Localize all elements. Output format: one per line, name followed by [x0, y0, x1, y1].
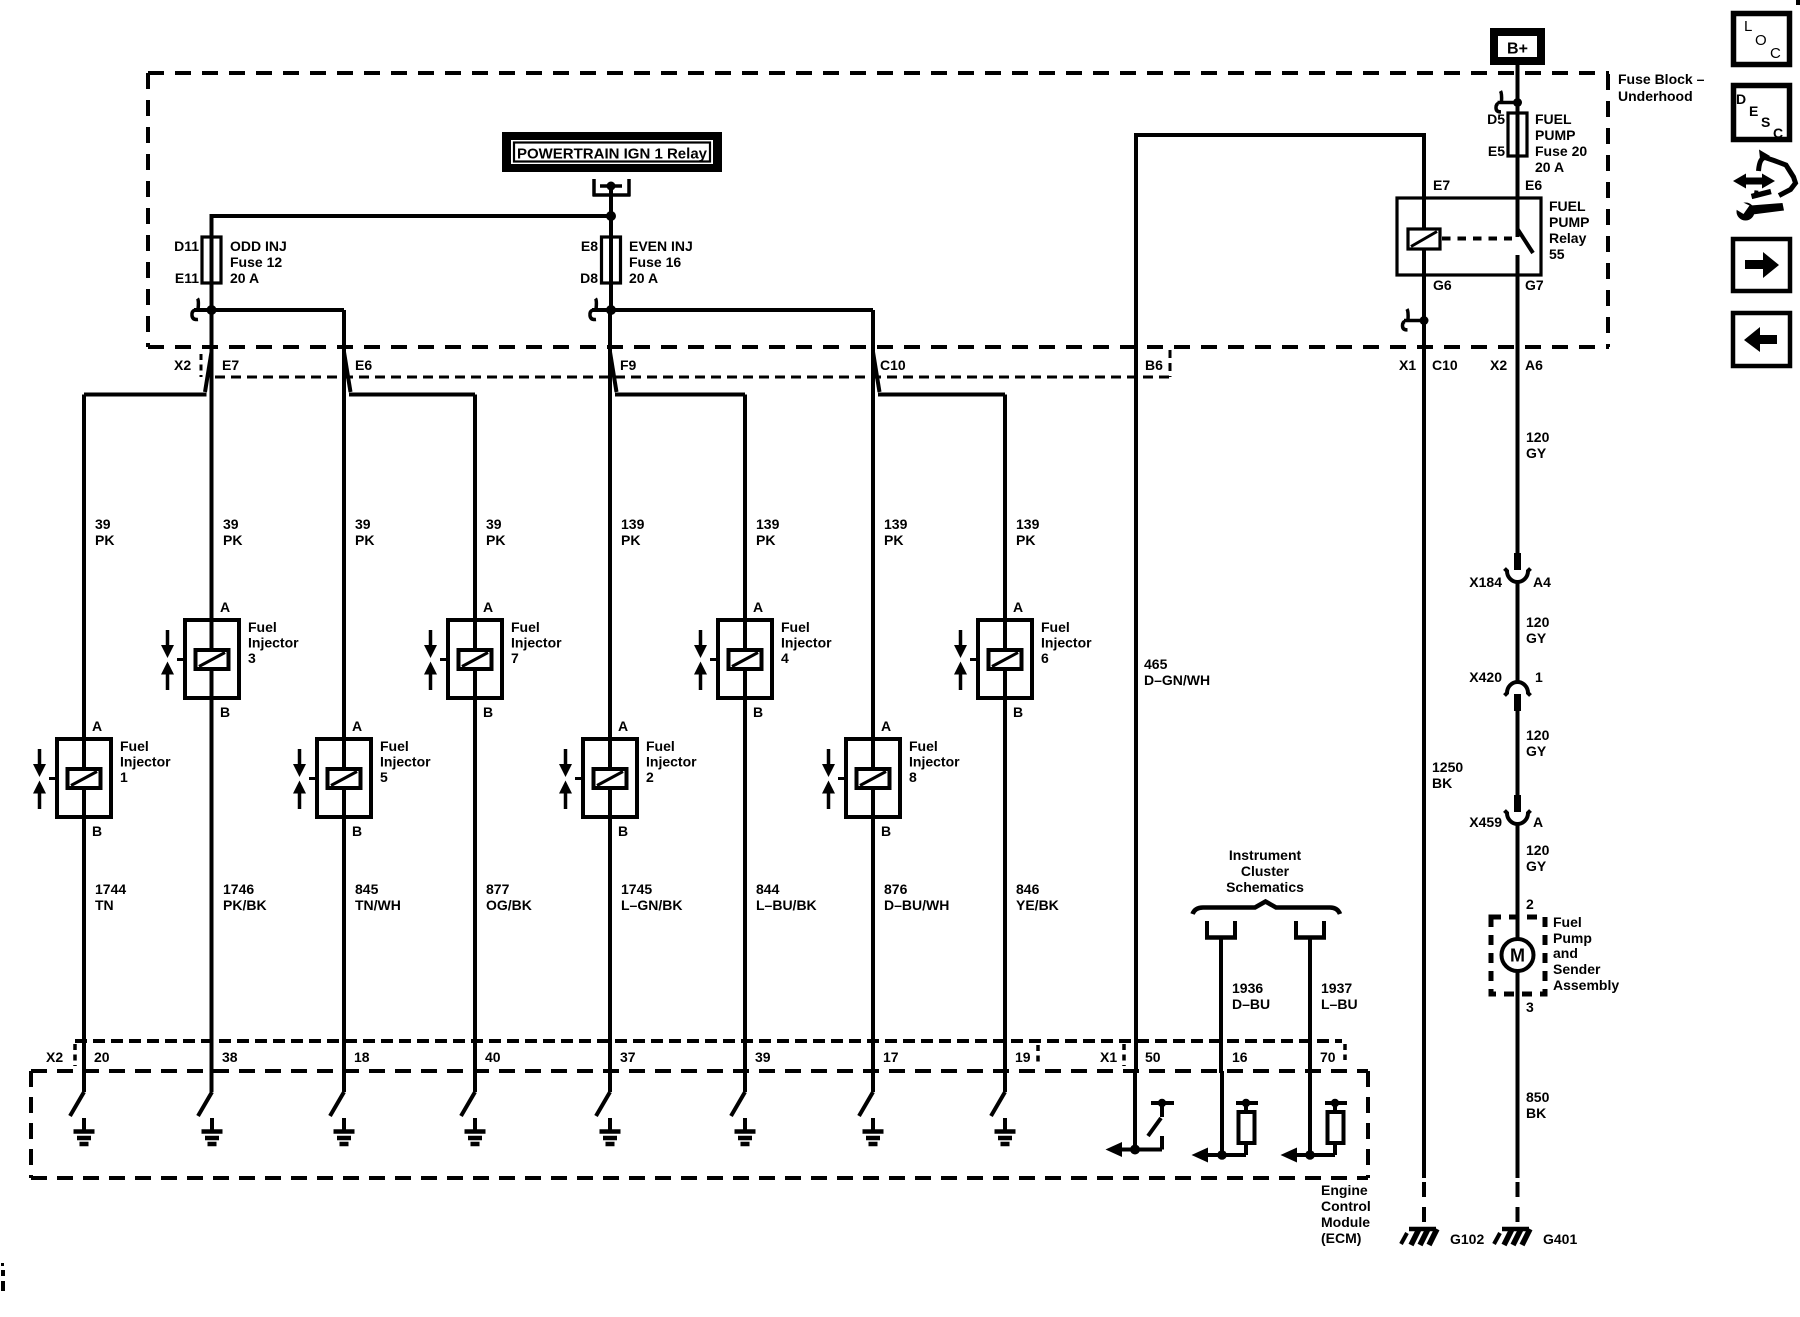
svg-text:and: and [1553, 945, 1578, 961]
svg-text:EVEN INJ: EVEN INJ [629, 238, 693, 254]
svg-text:G7: G7 [1525, 277, 1544, 293]
svg-text:38: 38 [222, 1049, 238, 1065]
connector row X2 (fuse block) [215, 376, 1170, 379]
svg-text:O: O [1755, 32, 1767, 49]
svg-text:Fuel: Fuel [120, 738, 149, 754]
fuse bus wire [210, 214, 612, 218]
wire pin bend [198, 1092, 212, 1116]
svg-text:40: 40 [485, 1049, 501, 1065]
wire pin bend [70, 1092, 84, 1116]
splice wire EVEN fuse to pin C10 [592, 308, 873, 312]
svg-text:139: 139 [884, 516, 908, 532]
svg-text:GY: GY [1526, 743, 1547, 759]
battery feed B+ [1490, 28, 1545, 65]
wire pin crossing at x=873 [871, 310, 875, 1092]
svg-text:POWERTRAIN IGN 1 Relay: POWERTRAIN IGN 1 Relay [517, 146, 708, 163]
svg-text:Sender: Sender [1553, 961, 1601, 977]
wire 850 BK [1516, 971, 1520, 1178]
fuel injector 4 [718, 620, 772, 698]
svg-text:Underhood: Underhood [1618, 88, 1693, 104]
svg-text:876: 876 [884, 881, 908, 897]
svg-text:C: C [1770, 45, 1781, 62]
svg-text:A6: A6 [1525, 357, 1543, 373]
wire [1404, 319, 1424, 323]
svg-text:E8: E8 [581, 238, 598, 254]
svg-text:PK: PK [621, 532, 640, 548]
svg-text:TN: TN [95, 897, 114, 913]
svg-text:39: 39 [223, 516, 239, 532]
svg-text:E7: E7 [1433, 177, 1450, 193]
wire B+ to fuse [1516, 65, 1520, 237]
svg-text:18: 18 [354, 1049, 370, 1065]
svg-text:37: 37 [620, 1049, 636, 1065]
svg-text:Fuel: Fuel [646, 738, 675, 754]
svg-text:1: 1 [1535, 669, 1543, 685]
wire pin crossing at x=211.5 [210, 310, 214, 1092]
svg-text:39: 39 [355, 516, 371, 532]
ECM driver switch (pin 50) [1133, 1071, 1137, 1150]
svg-text:C10: C10 [880, 357, 906, 373]
svg-text:2: 2 [646, 769, 654, 785]
svg-text:39: 39 [95, 516, 111, 532]
svg-text:Injector: Injector [380, 754, 431, 770]
cluster connector cavity [1205, 921, 1209, 938]
svg-text:Assembly: Assembly [1553, 977, 1619, 993]
wire branch at x=475 [473, 395, 477, 1093]
svg-text:465: 465 [1144, 656, 1168, 672]
svg-text:120: 120 [1526, 842, 1550, 858]
fuel injector 3 [185, 620, 239, 698]
svg-text:A: A [483, 599, 493, 615]
svg-text:17: 17 [883, 1049, 899, 1065]
fuel injector 5 [317, 739, 371, 817]
svg-text:GY: GY [1526, 445, 1547, 461]
wire pin bend [991, 1092, 1005, 1116]
svg-text:877: 877 [486, 881, 510, 897]
wire 1250 BK [1422, 322, 1426, 1178]
svg-text:X1: X1 [1399, 357, 1416, 373]
motor M [1502, 939, 1534, 971]
svg-text:1936: 1936 [1232, 980, 1263, 996]
svg-text:20: 20 [94, 1049, 110, 1065]
svg-text:B: B [220, 704, 230, 720]
svg-text:BK: BK [1432, 775, 1452, 791]
svg-text:Engine: Engine [1321, 1182, 1368, 1198]
fuse FUEL PUMP Fuse 20 [1508, 113, 1527, 156]
svg-text:Fuse 20: Fuse 20 [1535, 143, 1587, 159]
svg-text:70: 70 [1320, 1049, 1336, 1065]
svg-text:A4: A4 [1533, 574, 1551, 590]
fuel injector 2 [583, 739, 637, 817]
icon LOC [1734, 14, 1790, 65]
svg-text:E7: E7 [222, 357, 239, 373]
svg-text:Relay: Relay [1549, 230, 1587, 246]
wire 193x [1308, 937, 1312, 1073]
svg-text:E11: E11 [175, 270, 199, 286]
relay contact link [1442, 237, 1512, 241]
ECM resistor (pin 70) [1308, 1071, 1312, 1155]
POWERTRAIN IGN 1 Relay box [502, 132, 722, 172]
svg-text:Fuel: Fuel [1041, 619, 1070, 635]
svg-text:4: 4 [781, 650, 789, 666]
svg-text:39: 39 [486, 516, 502, 532]
svg-text:C10: C10 [1432, 357, 1458, 373]
svg-text:Control: Control [1321, 1198, 1371, 1214]
svg-text:PK: PK [756, 532, 775, 548]
cluster connector cavity [1294, 921, 1298, 938]
wire branch at x=745 [743, 395, 747, 1093]
svg-text:TN/WH: TN/WH [355, 897, 401, 913]
svg-text:20 A: 20 A [230, 270, 259, 286]
svg-text:(ECM): (ECM) [1321, 1230, 1361, 1246]
svg-text:S: S [1761, 114, 1770, 130]
svg-text:A: A [220, 599, 230, 615]
svg-text:YE/BK: YE/BK [1016, 897, 1059, 913]
svg-text:6: 6 [1041, 650, 1049, 666]
svg-text:E: E [1749, 103, 1758, 119]
svg-text:20 A: 20 A [1535, 159, 1564, 175]
ground [82, 1118, 86, 1131]
svg-text:D: D [1736, 91, 1746, 107]
connector row ECM [75, 1039, 1342, 1043]
svg-text:PK: PK [1016, 532, 1035, 548]
svg-text:PUMP: PUMP [1535, 127, 1575, 143]
svg-text:GY: GY [1526, 858, 1547, 874]
svg-text:120: 120 [1526, 727, 1550, 743]
ground [608, 1118, 612, 1131]
ground [342, 1118, 346, 1131]
svg-text:5: 5 [380, 769, 388, 785]
wire relay E7 feed [1134, 133, 1426, 137]
svg-text:8: 8 [909, 769, 917, 785]
svg-text:7: 7 [511, 650, 519, 666]
svg-text:846: 846 [1016, 881, 1040, 897]
svg-text:B: B [352, 823, 362, 839]
svg-text:845: 845 [355, 881, 379, 897]
svg-text:Fuel: Fuel [511, 619, 540, 635]
svg-text:PK: PK [884, 532, 903, 548]
svg-text:Fuel: Fuel [248, 619, 277, 635]
svg-text:PK: PK [223, 532, 242, 548]
ground [210, 1118, 214, 1131]
wire branch at x=84 [82, 395, 86, 1093]
svg-text:Injector: Injector [248, 635, 299, 651]
svg-text:Injector: Injector [120, 754, 171, 770]
svg-text:120: 120 [1526, 429, 1550, 445]
wire pin bend [330, 1092, 344, 1116]
svg-text:E6: E6 [1525, 177, 1542, 193]
svg-text:D–BU: D–BU [1232, 996, 1270, 1012]
ground G401 [1502, 1227, 1529, 1232]
svg-text:Pump: Pump [1553, 930, 1592, 946]
svg-text:PUMP: PUMP [1549, 214, 1589, 230]
ECM resistor (pin 16) [1220, 1071, 1224, 1155]
svg-text:19: 19 [1015, 1049, 1031, 1065]
svg-text:Fuel: Fuel [1553, 914, 1582, 930]
svg-text:Schematics: Schematics [1226, 879, 1304, 895]
svg-text:PK/BK: PK/BK [223, 897, 267, 913]
wire branch at x=1005 [1003, 395, 1007, 1093]
svg-text:16: 16 [1232, 1049, 1248, 1065]
icon arrow back [1733, 313, 1790, 366]
wire pin C10 drop [871, 310, 875, 355]
Engine Control Module dashed box [31, 1069, 1368, 1073]
svg-text:X2: X2 [1490, 357, 1507, 373]
icon wrench/part [1732, 150, 1796, 221]
svg-text:F9: F9 [620, 357, 637, 373]
svg-text:OG/BK: OG/BK [486, 897, 532, 913]
svg-text:B: B [881, 823, 891, 839]
ground [743, 1118, 747, 1131]
wire relay to fuse bus [609, 186, 613, 218]
svg-text:Fuel: Fuel [909, 738, 938, 754]
wire pin E6 drop [342, 310, 346, 355]
svg-text:A: A [753, 599, 763, 615]
icon DESC [1734, 86, 1790, 140]
fuel injector 6 [978, 620, 1032, 698]
svg-text:E5: E5 [1488, 143, 1505, 159]
svg-text:1: 1 [120, 769, 128, 785]
svg-text:E6: E6 [355, 357, 372, 373]
svg-text:G401: G401 [1543, 1231, 1577, 1247]
svg-text:X420: X420 [1469, 669, 1502, 685]
svg-text:X184: X184 [1469, 574, 1502, 590]
svg-text:D–GN/WH: D–GN/WH [1144, 672, 1210, 688]
svg-text:139: 139 [1016, 516, 1040, 532]
svg-text:120: 120 [1526, 614, 1550, 630]
svg-text:Fuel: Fuel [781, 619, 810, 635]
svg-text:850: 850 [1526, 1089, 1550, 1105]
svg-text:B: B [483, 704, 493, 720]
svg-text:50: 50 [1145, 1049, 1161, 1065]
svg-text:1250: 1250 [1432, 759, 1463, 775]
page mark [1796, 0, 1800, 5]
svg-text:D11: D11 [174, 238, 199, 254]
svg-text:A: A [352, 718, 362, 734]
svg-text:B: B [618, 823, 628, 839]
svg-text:A: A [881, 718, 891, 734]
wire pin crossing at x=610 [608, 310, 612, 1092]
svg-text:A: A [1533, 814, 1543, 830]
inline connector X420 pin 1 [1505, 682, 1531, 696]
relay coil [1422, 135, 1426, 229]
svg-text:L–GN/BK: L–GN/BK [621, 897, 682, 913]
svg-text:B: B [92, 823, 102, 839]
svg-text:B+: B+ [1507, 41, 1528, 58]
svg-text:D–BU/WH: D–BU/WH [884, 897, 949, 913]
wire to ODD INJ fuse [210, 214, 214, 310]
svg-text:Injector: Injector [646, 754, 697, 770]
svg-text:PK: PK [355, 532, 374, 548]
svg-text:D8: D8 [580, 270, 598, 286]
relay FUEL PUMP Relay 55 [1397, 198, 1541, 275]
svg-text:B: B [1013, 704, 1023, 720]
svg-text:3: 3 [1526, 999, 1534, 1015]
svg-text:FUEL: FUEL [1535, 111, 1572, 127]
wire 193x [1219, 937, 1223, 1073]
wire pin bend [596, 1092, 610, 1116]
svg-text:Injector: Injector [909, 754, 960, 770]
svg-text:C: C [1773, 125, 1783, 141]
svg-text:Cluster: Cluster [1241, 863, 1290, 879]
svg-text:X1: X1 [1100, 1049, 1117, 1065]
wire 120 GY (A6 to pump) [1516, 275, 1520, 553]
svg-text:X2: X2 [174, 357, 191, 373]
svg-text:Fuel: Fuel [380, 738, 409, 754]
svg-text:ODD INJ: ODD INJ [230, 238, 287, 254]
svg-text:A: A [618, 718, 628, 734]
svg-text:D5: D5 [1487, 111, 1505, 127]
svg-text:844: 844 [756, 881, 780, 897]
inline connector X459 pin A [1514, 795, 1521, 812]
svg-text:Injector: Injector [511, 635, 562, 651]
svg-text:20 A: 20 A [629, 270, 658, 286]
svg-text:X2: X2 [46, 1049, 63, 1065]
ground G102 [1409, 1227, 1436, 1232]
wire 465 D-GN/WH [1134, 133, 1138, 1073]
svg-text:39: 39 [755, 1049, 771, 1065]
icon arrow next [1733, 239, 1790, 291]
svg-text:Fuse Block –: Fuse Block – [1618, 71, 1705, 87]
svg-text:2: 2 [1526, 896, 1534, 912]
svg-text:1745: 1745 [621, 881, 652, 897]
svg-text:Fuse 12: Fuse 12 [230, 254, 282, 270]
svg-text:A: A [92, 718, 102, 734]
svg-text:PK: PK [486, 532, 505, 548]
svg-text:Injector: Injector [1041, 635, 1092, 651]
svg-text:Fuse 16: Fuse 16 [629, 254, 681, 270]
svg-text:1746: 1746 [223, 881, 254, 897]
ground [1003, 1118, 1007, 1131]
fuel injector 7 [448, 620, 502, 698]
ground [473, 1118, 477, 1131]
svg-text:B6: B6 [1145, 357, 1163, 373]
svg-text:L–BU: L–BU [1321, 996, 1358, 1012]
inline connector X184 pin A4 [1514, 553, 1521, 570]
wire pin bend [461, 1092, 475, 1116]
wire [1498, 101, 1518, 105]
svg-text:Module: Module [1321, 1214, 1370, 1230]
fuse ODD INJ Fuse 12 [202, 237, 221, 283]
svg-text:B: B [753, 704, 763, 720]
svg-text:FUEL: FUEL [1549, 198, 1586, 214]
svg-text:BK: BK [1526, 1105, 1546, 1121]
svg-text:1744: 1744 [95, 881, 126, 897]
svg-text:139: 139 [756, 516, 780, 532]
Fuel Pump and Sender Assembly [1491, 917, 1545, 994]
splice hook [196, 299, 200, 310]
wire pin bend [731, 1092, 745, 1116]
svg-text:L–BU/BK: L–BU/BK [756, 897, 817, 913]
fuse EVEN INJ Fuse 16 [602, 237, 621, 283]
svg-text:X459: X459 [1469, 814, 1502, 830]
wire pin bend [859, 1092, 873, 1116]
svg-text:3: 3 [248, 650, 256, 666]
svg-text:GY: GY [1526, 630, 1547, 646]
svg-text:Injector: Injector [781, 635, 832, 651]
svg-text:A: A [1013, 599, 1023, 615]
svg-text:L: L [1744, 18, 1752, 35]
svg-text:G102: G102 [1450, 1231, 1484, 1247]
Fuse Block - Underhood dashed box [148, 71, 1609, 75]
svg-text:G6: G6 [1433, 277, 1452, 293]
wire to EVEN INJ fuse [609, 216, 613, 311]
svg-text:55: 55 [1549, 246, 1565, 262]
svg-text:1937: 1937 [1321, 980, 1352, 996]
relay switch [1516, 156, 1520, 231]
fuel injector 8 [846, 739, 900, 817]
relay terminal bracket [592, 179, 596, 196]
svg-text:M: M [1510, 946, 1525, 966]
wire pin crossing at x=344 [342, 310, 346, 1092]
ground [871, 1118, 875, 1131]
fuel injector 1 [57, 739, 111, 817]
svg-text:139: 139 [621, 516, 645, 532]
svg-text:Instrument: Instrument [1229, 847, 1302, 863]
svg-text:PK: PK [95, 532, 114, 548]
splice wire ODD fuse to pin E6 [194, 308, 344, 312]
